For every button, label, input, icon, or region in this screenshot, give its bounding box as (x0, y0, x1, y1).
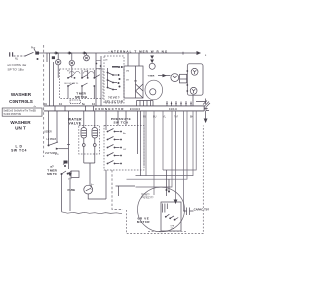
svg-text:~NTERNAL T MER W R NG: ~NTERNAL T MER W R NG (108, 49, 168, 53)
svg-text:C0NNECT0R: C0NNECT0R (95, 107, 125, 111)
wire coil1 drop (83, 111, 85, 163)
svg-text:FU5E: FU5E (68, 188, 76, 192)
connector band line2 (44, 106, 205, 111)
wire r9b (143, 111, 145, 166)
arrow into motor (174, 200, 178, 205)
node dots on bus (54, 52, 84, 54)
wire blob to bus (39, 52, 47, 54)
wire start box (116, 186, 136, 196)
svg-text:SW TCH: SW TCH (114, 120, 129, 124)
svg-text:?E?M??: ?E?M?? (141, 195, 150, 197)
fuse circle (84, 185, 93, 194)
timer switch contacts row2 (67, 83, 95, 99)
fuse inner (86, 188, 91, 191)
lid switch dot (48, 144, 50, 146)
level selector dashed box (104, 56, 124, 103)
pressure contacts r3 (107, 145, 122, 149)
svg-text:??o: ??o (171, 228, 175, 230)
indicator light C (84, 55, 90, 61)
lid switch contact arrow (56, 148, 59, 150)
level selector contacts (107, 68, 117, 90)
pressure contacts r2 (107, 137, 122, 141)
cam left dots (118, 66, 123, 88)
wire r3 (127, 111, 188, 179)
svg-text:P?0?EC???: P?0?EC??? (141, 197, 154, 199)
wire r5 (136, 111, 173, 187)
node junction dot (37, 58, 39, 60)
big ellipse (timer cam) (145, 80, 163, 100)
band right bracket (204, 107, 209, 111)
pressure contacts r1 (107, 129, 122, 133)
node dot r7 (168, 191, 170, 193)
connector blob2 (52, 56, 55, 59)
svg-text:9 4 4 9 4: 9 4 4 9 4 (130, 108, 140, 111)
wire fuse down (88, 194, 106, 199)
svg-text:SwBCmS Sm0wN w!Tm T!mEB: SwBCmS Sm0wN w!Tm T!mEB (3, 110, 36, 112)
wire to aux motor (158, 75, 171, 77)
wire r4 (175, 111, 177, 200)
solenoid circle cold (190, 87, 197, 94)
wire drop mid (95, 53, 97, 106)
wire drop to lamp2 (71, 53, 73, 60)
svg-text:UN T: UN T (15, 126, 26, 131)
wire drop left (49, 53, 51, 106)
wire (top bus) (47, 53, 199, 62)
band ticks above right (167, 101, 191, 106)
svg-text:NL: NL (15, 58, 19, 61)
svg-text:?o?: ?o? (174, 116, 179, 119)
svg-text:4 9 1 9: 4 9 1 9 (169, 108, 177, 111)
node dots on housing (186, 70, 188, 72)
water valve solenoid housing (187, 64, 203, 95)
wire motor bottom dashes (148, 230, 186, 232)
ground arrow drop (205, 111, 207, 119)
switch (line switch) (25, 52, 34, 56)
node cross tick (67, 144, 70, 146)
svg-text:WASHER: WASHER (10, 120, 31, 125)
svg-text:VALVE: VALVE (68, 121, 81, 125)
svg-text:uC N PPu 4w: uC N PPu 4w (8, 63, 27, 67)
connector band line1 (44, 105, 205, 107)
timer switch dashed box (60, 69, 104, 99)
node dots mid pair (96, 63, 102, 67)
wire fuse link (89, 163, 91, 185)
valve terminals (82, 144, 85, 147)
valve coil 1 (81, 128, 87, 139)
wire lid blade top (56, 111, 58, 142)
wire long left vertical (68, 111, 70, 169)
wire r2 (136, 111, 194, 176)
svg-text:J8: J8 (105, 60, 108, 62)
wire (cord dashed lead) (14, 55, 27, 57)
arrow (bus end) (197, 51, 202, 55)
wire (left border dashed vertical) (43, 45, 45, 157)
drive motor circle (138, 187, 185, 232)
svg-text:4?0: 4?0 (55, 154, 59, 156)
band dots above right (166, 103, 191, 104)
wire r9 (145, 111, 147, 176)
wire lid to right (59, 148, 69, 150)
wire cap top (180, 111, 182, 207)
wire r4b (capacitor feed) (184, 111, 186, 211)
pressure wires in (106, 111, 141, 154)
timer switch upper contact blob (63, 161, 68, 165)
svg-text:YL: YL (163, 116, 167, 119)
svg-text:SW TC: SW TC (47, 172, 58, 176)
svg-text:5o: 5o (82, 103, 85, 106)
motor inner box (161, 202, 181, 231)
connector arrows on bus (56, 51, 88, 55)
svg-text:SW TC4: SW TC4 (11, 149, 27, 153)
svg-text:C0NTR0LS: C0NTR0LS (9, 99, 33, 104)
timer switch lower contacts (61, 173, 63, 175)
svg-text:BK 2: BK 2 (90, 185, 92, 191)
lid switch blade (49, 142, 59, 145)
svg-text:2M: 2M (126, 70, 129, 72)
wire down-left border (61, 175, 63, 212)
cam switch assembly box (124, 66, 143, 98)
capacitor symbol (184, 208, 194, 216)
wire (leader) (34, 49, 36, 52)
wire into housing (180, 78, 187, 80)
svg-text:!N 0FF P0S!T!0N: !N 0FF P0S!T!0N (3, 114, 21, 116)
wire cam to bus (128, 53, 139, 66)
svg-text:WASHER: WASHER (11, 92, 32, 97)
level selector top blob (112, 66, 118, 68)
svg-text:T MER: T MER (148, 75, 155, 77)
svg-text:U59ER: U59ER (44, 131, 52, 134)
motor winding bars (163, 204, 168, 213)
wire drop to lamp3 (86, 53, 88, 55)
svg-text:4M: 4M (134, 81, 137, 83)
timer switch lower box (71, 171, 79, 178)
node dot r6 (166, 189, 168, 191)
svg-text:Bu: Bu (123, 133, 126, 135)
wire coil2 drop (84, 111, 95, 163)
svg-text:M0T0R: M0T0R (137, 220, 150, 224)
node tick (182, 52, 184, 55)
wire box down (69, 178, 71, 212)
band ticks row (55, 106, 94, 111)
svg-text:BU: BU (153, 116, 157, 119)
timer motor arrows (150, 56, 154, 64)
wire left of motor (112, 170, 123, 210)
svg-text:SW TCH: SW TCH (75, 95, 88, 99)
connector blob (35, 52, 39, 55)
coil arcs (69, 71, 94, 73)
power cord plug (10, 52, 13, 56)
arrow below box (68, 173, 72, 177)
timer motor (149, 63, 155, 69)
wire r7 (168, 179, 170, 192)
tick marks mid (96, 61, 101, 69)
wire drop mid2 (100, 56, 102, 106)
pressure contacts r4 (107, 153, 122, 157)
indicator light A (56, 60, 61, 65)
aux motor circle (171, 74, 179, 82)
wire lid drop (48, 111, 50, 145)
pressure switch dashed box (104, 126, 144, 171)
band mini dashed box (70, 100, 81, 103)
wire r1 (163, 111, 196, 170)
note box (2, 108, 42, 116)
svg-text:L0 PRE5: L0 PRE5 (47, 138, 57, 141)
motor inner contacts (165, 216, 167, 218)
small circle inside (150, 89, 156, 95)
ground symbol right (196, 99, 210, 107)
aux rect (180, 74, 187, 83)
svg-text:SP TO' 1Bu: SP TO' 1Bu (8, 68, 24, 72)
arrow on wire (163, 74, 167, 77)
pressure contacts r5 (107, 161, 122, 165)
wire r6 (166, 170, 168, 196)
wire r1b (162, 111, 164, 170)
wire r8 (153, 111, 155, 195)
wire housing to band (192, 95, 194, 106)
comb connector (137, 101, 154, 106)
svg-text:s: s (205, 54, 207, 57)
indicator light B (69, 60, 74, 65)
wire drop left2 (53, 62, 55, 106)
timer switch contacts row1 (58, 65, 100, 79)
valve coil 2 (92, 128, 98, 139)
svg-text:CAPAC T0?: CAPAC T0? (194, 207, 210, 211)
bottom scan border wavy (62, 212, 123, 214)
motor dashed enclosure (127, 126, 204, 234)
svg-text:Puu: Puu (31, 46, 36, 49)
svg-text:GY: GY (123, 149, 127, 151)
wire r10 (140, 126, 142, 176)
solenoid circle hot (191, 68, 198, 75)
svg-text:SELECT0R: SELECT0R (105, 99, 124, 103)
svg-text:2B: 2B (126, 80, 129, 82)
wire pressure down (105, 170, 107, 199)
water valve dashed box (79, 126, 100, 155)
wire drop to lamp1 (57, 53, 59, 60)
